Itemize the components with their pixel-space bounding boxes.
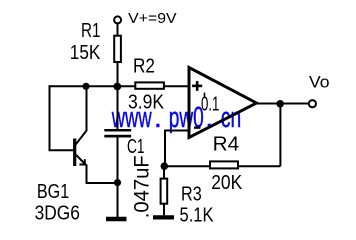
svg-text:Vo: Vo [309,72,330,91]
svg-text:R1: R1 [81,20,101,42]
svg-text:.: . [154,102,162,134]
svg-text:3DG6: 3DG6 [35,203,80,225]
svg-text:C1: C1 [127,136,145,158]
svg-text:5.1K: 5.1K [180,204,215,226]
svg-text:R3: R3 [181,184,202,206]
svg-text:R2: R2 [133,56,155,78]
svg-text:.047uF: .047uF [131,155,154,218]
svg-text:BG1: BG1 [37,181,69,203]
svg-text:V+=9V: V+=9V [128,10,176,27]
svg-text:R4: R4 [213,134,240,156]
svg-text:20K: 20K [211,172,243,194]
svg-text:pw0: pw0 [169,102,204,134]
svg-text:15K: 15K [70,42,101,64]
